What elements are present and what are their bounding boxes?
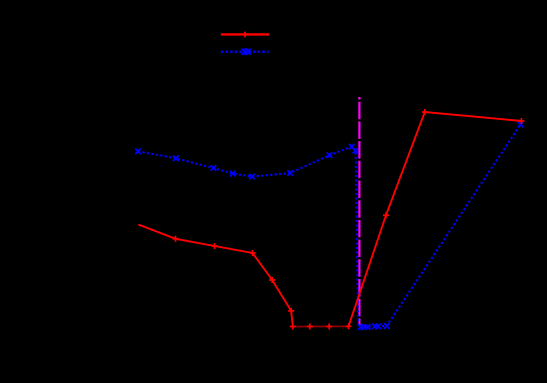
legend blue x markers (two overlapping points) (241, 49, 247, 55)
magenta dashed vertical threshold line (358, 97, 360, 325)
legend red solid line (221, 33, 269, 35)
red plus markers (173, 109, 525, 330)
legend red plus marker (242, 32, 248, 38)
red flat bottom segment (appears darker) (293, 325, 349, 327)
blue x markers (135, 122, 523, 330)
red solid series polyline right part (349, 112, 522, 326)
red solid series polyline left part (138, 225, 292, 327)
legend blue dotted line (221, 51, 269, 53)
blue dotted series polyline (138, 125, 521, 328)
